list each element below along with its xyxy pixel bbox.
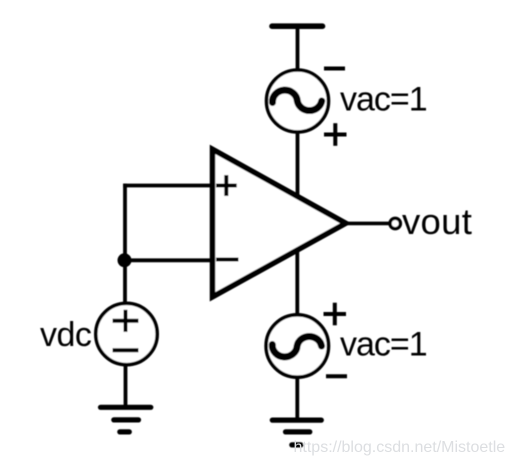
wire noninverting input bbox=[123, 184, 212, 188]
wire left vertical bbox=[123, 184, 127, 304]
supply rail bar (top) bbox=[272, 23, 323, 29]
dc source plus marker bbox=[113, 310, 139, 332]
polarity plus (V3) bbox=[324, 303, 347, 326]
wire V3 to ground bbox=[295, 377, 299, 419]
polarity plus (V2) bbox=[324, 123, 347, 146]
wire vdc to ground bbox=[124, 365, 128, 408]
svg-text:vac=1: vac=1 bbox=[340, 326, 427, 364]
ground (left) bbox=[101, 407, 151, 432]
op-amp inverting input marker - bbox=[216, 258, 239, 262]
op-amp U1 bbox=[213, 149, 346, 296]
svg-text:vdc: vdc bbox=[40, 316, 92, 354]
wire output bbox=[344, 222, 389, 226]
node junction dot bbox=[118, 253, 132, 267]
polarity minus (V3) bbox=[326, 374, 347, 378]
svg-text:https://blog.csdn.net/Mistoetl: https://blog.csdn.net/Mistoetle bbox=[294, 439, 506, 456]
op-amp noninverting input marker + bbox=[216, 175, 237, 196]
wire op-amp negative supply pin to V3 bbox=[295, 249, 299, 315]
dc source V1 (vdc) bbox=[96, 303, 157, 364]
wire rail to V2 bbox=[296, 26, 300, 71]
ac source V2 (top) bbox=[267, 70, 329, 132]
ac source V3 (bottom) bbox=[266, 315, 328, 377]
svg-text:vac=1: vac=1 bbox=[340, 81, 427, 119]
polarity minus (V2) bbox=[324, 67, 345, 71]
dc source minus marker bbox=[113, 348, 139, 352]
terminal vout (open pin) bbox=[390, 218, 400, 228]
wire inverting input bbox=[123, 258, 212, 262]
ground (right) bbox=[272, 420, 321, 445]
wire V2 to op-amp positive supply pin bbox=[296, 131, 300, 198]
svg-text:vout: vout bbox=[402, 201, 472, 242]
